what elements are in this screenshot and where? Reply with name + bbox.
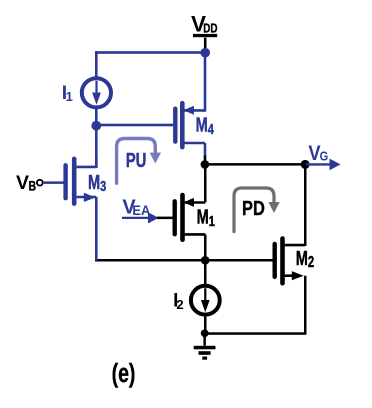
arrow PU <box>117 139 161 184</box>
wire VB to M3 gate <box>43 181 64 184</box>
transistor M3 <box>66 159 97 204</box>
ground <box>194 333 216 359</box>
wire M2 source down <box>304 276 307 335</box>
current source I2 <box>191 286 220 315</box>
transistor M2 <box>275 239 306 284</box>
wire top rail <box>95 51 205 54</box>
svg-text:M1: M1 <box>197 205 215 229</box>
node E <box>201 256 210 265</box>
svg-text:PU: PU <box>126 149 147 172</box>
current source I1 <box>82 78 111 107</box>
node D <box>301 160 310 169</box>
wire node B to M4 gate <box>96 124 173 127</box>
svg-text:2: 2 <box>176 297 183 312</box>
wire I1 to node B <box>95 108 98 126</box>
svg-text:M4: M4 <box>196 113 215 137</box>
svg-text:B: B <box>29 178 37 194</box>
wire gate rail E to M2 gate <box>95 259 273 262</box>
svg-text:(e): (e) <box>112 358 136 387</box>
node C <box>201 160 210 169</box>
wire I2 to node F <box>204 315 207 334</box>
wire node D to M2 drain <box>304 164 307 246</box>
wire node B to M3 source <box>95 126 98 168</box>
transistor M4 <box>175 103 205 147</box>
wire M1 source to node E <box>204 234 207 260</box>
wire VEA to M1 gate <box>157 217 173 220</box>
svg-text:1: 1 <box>66 89 73 104</box>
wire M3 drain down to gate rail <box>95 197 98 260</box>
wire M4 source to VDD <box>204 52 207 112</box>
wire M3 source to node B <box>95 155 98 168</box>
wire node F to M2 source <box>205 332 306 335</box>
node F <box>201 329 209 337</box>
svg-text:PD: PD <box>242 196 265 219</box>
wire node E to I2 <box>204 260 207 286</box>
input arrow VEA <box>122 212 159 223</box>
terminal VB <box>37 180 43 186</box>
svg-text:M2: M2 <box>296 247 314 271</box>
wire node C to node D <box>205 163 306 166</box>
svg-text:M3: M3 <box>88 171 106 195</box>
svg-text:G: G <box>320 149 329 164</box>
node B <box>91 121 101 131</box>
wire M1 drain to node C <box>204 164 207 202</box>
transistor M1 <box>175 195 206 240</box>
node A VDD junction <box>200 48 210 58</box>
svg-text:V: V <box>16 172 29 194</box>
net VDD label <box>191 12 218 37</box>
wire M4 drain down <box>204 143 207 156</box>
svg-text:EA: EA <box>132 203 150 218</box>
output arrow VG <box>305 159 340 171</box>
arrow PD <box>234 188 280 232</box>
wire VDD stub <box>204 38 207 51</box>
wire VDD rail to I1 <box>95 51 98 76</box>
wire M4 drain to node C black part <box>204 156 207 165</box>
power bar VDD <box>193 34 217 37</box>
